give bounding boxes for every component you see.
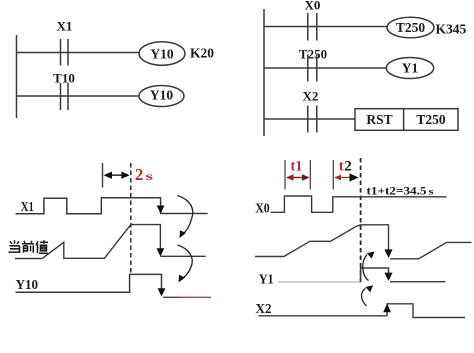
svg-text:t1: t1: [291, 159, 303, 175]
svg-text:t: t: [339, 159, 344, 175]
svg-text:X1: X1: [57, 19, 73, 34]
svg-text:Y10: Y10: [150, 46, 173, 61]
svg-text:RST: RST: [366, 112, 392, 127]
svg-text:2: 2: [135, 165, 144, 184]
svg-text:s: s: [429, 187, 435, 197]
svg-text:K345: K345: [436, 22, 467, 37]
svg-text:K20: K20: [190, 46, 214, 61]
svg-text:T10: T10: [53, 71, 75, 86]
svg-text:s: s: [146, 169, 154, 183]
svg-text:X0: X0: [305, 0, 321, 13]
svg-text:Y10: Y10: [150, 88, 173, 103]
svg-text:X2: X2: [303, 89, 319, 104]
svg-text:X2: X2: [256, 302, 272, 317]
svg-text:2: 2: [344, 159, 352, 175]
svg-text:T250: T250: [416, 112, 446, 127]
svg-text:Y1: Y1: [402, 61, 419, 76]
svg-text:Y1: Y1: [259, 272, 274, 287]
svg-text:T250: T250: [299, 47, 327, 62]
svg-text:Y10: Y10: [16, 277, 39, 292]
svg-text:t1+t2=34.5: t1+t2=34.5: [367, 186, 427, 198]
svg-text:T250: T250: [396, 20, 426, 35]
svg-text:X0: X0: [255, 202, 270, 217]
svg-text:X1: X1: [21, 199, 34, 214]
